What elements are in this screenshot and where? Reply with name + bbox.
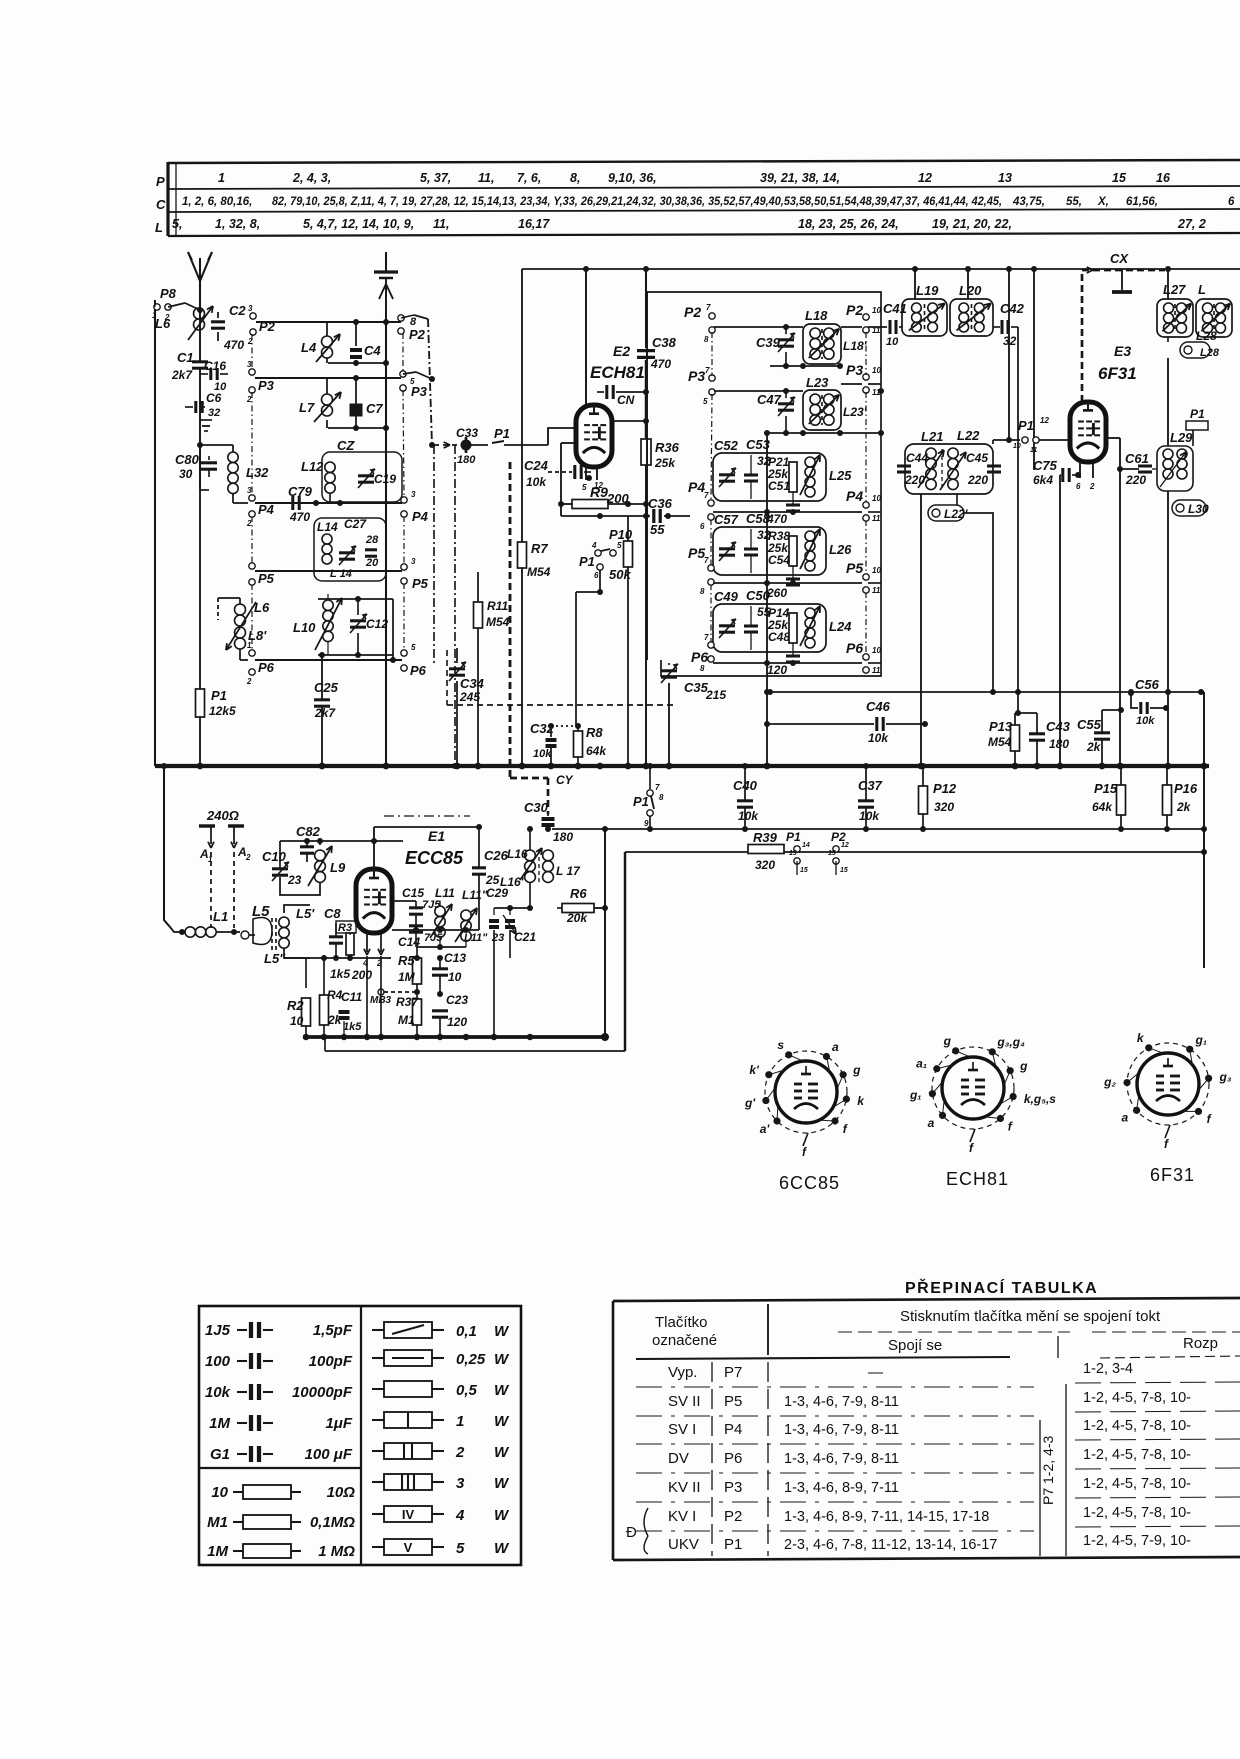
svg-text:g: g xyxy=(943,1034,952,1048)
svg-text:P12: P12 xyxy=(933,781,957,796)
svg-text:3: 3 xyxy=(247,486,252,495)
switch P3 right xyxy=(400,371,406,377)
svg-text:C10: C10 xyxy=(262,849,287,864)
svg-text:P1: P1 xyxy=(494,426,510,441)
legend wattage row 4 xyxy=(372,1513,384,1515)
vertical right edge x1204 xyxy=(1203,692,1205,968)
capacitor C21 xyxy=(505,919,515,923)
svg-text:6F31: 6F31 xyxy=(1098,364,1137,383)
svg-text:5: 5 xyxy=(582,483,587,492)
IF can L25 xyxy=(713,453,826,501)
svg-text:P6: P6 xyxy=(724,1450,742,1467)
svg-text:W: W xyxy=(494,1382,510,1399)
wire C56 rail y692 xyxy=(770,691,1204,693)
svg-text:11: 11 xyxy=(872,514,881,523)
svg-text:P2: P2 xyxy=(684,304,701,320)
ground symbol top xyxy=(385,252,387,272)
svg-text:0,5: 0,5 xyxy=(456,1382,478,1399)
pushbutton chain left column xyxy=(251,334,253,370)
svg-text:11,: 11, xyxy=(433,217,449,231)
svg-text:Rozp: Rozp xyxy=(1183,1335,1218,1352)
svg-text:10: 10 xyxy=(1013,443,1021,450)
svg-text:C4: C4 xyxy=(364,343,381,358)
svg-text:SV II: SV II xyxy=(668,1393,701,1410)
wire y930 row xyxy=(392,929,479,931)
svg-text:10: 10 xyxy=(872,494,881,503)
capacitor C4 xyxy=(350,348,362,352)
IF block frame xyxy=(646,292,881,676)
svg-text:P6: P6 xyxy=(691,649,708,665)
switch P4 IF right xyxy=(863,502,869,508)
switch P6 right xyxy=(401,650,407,656)
svg-text:L: L xyxy=(155,220,163,235)
svg-text:R39: R39 xyxy=(753,830,778,845)
svg-text:P5: P5 xyxy=(724,1393,742,1410)
svg-text:6: 6 xyxy=(700,522,705,531)
heavy dashed CY to C30 xyxy=(510,777,548,780)
svg-text:12: 12 xyxy=(918,171,932,185)
svg-text:5: 5 xyxy=(411,643,416,652)
switch P2 IF right xyxy=(841,326,862,328)
wire L27 to L29 vertical xyxy=(1167,337,1169,342)
svg-text:L11": L11" xyxy=(462,888,488,902)
wire L5 ground xyxy=(255,941,284,958)
capacitor C36 55 xyxy=(652,509,655,523)
svg-text:L32: L32 xyxy=(246,465,269,480)
svg-text:10k: 10k xyxy=(526,475,547,489)
svg-text:8: 8 xyxy=(700,587,705,596)
svg-text:4: 4 xyxy=(455,1507,465,1524)
svg-text:C30: C30 xyxy=(524,800,549,815)
wire tube pins to bus xyxy=(366,956,368,1037)
svg-text:25: 25 xyxy=(485,873,500,887)
svg-text:CX: CX xyxy=(1110,251,1129,266)
svg-text:220: 220 xyxy=(1125,473,1146,487)
component usage table frame xyxy=(168,160,1240,163)
svg-text:W: W xyxy=(494,1475,510,1492)
IF can L24 xyxy=(713,604,826,652)
svg-text:L18': L18' xyxy=(843,339,868,353)
wire L4 C4 bottom xyxy=(328,362,386,364)
svg-text:UKV: UKV xyxy=(668,1536,699,1553)
svg-text:L24: L24 xyxy=(829,619,852,634)
svg-text:10: 10 xyxy=(872,566,881,575)
svg-text:200: 200 xyxy=(351,968,372,982)
svg-text:2k: 2k xyxy=(1086,740,1102,754)
svg-text:64k: 64k xyxy=(586,744,607,758)
svg-text:10: 10 xyxy=(872,306,881,315)
svg-text:C39: C39 xyxy=(756,335,781,350)
socket outer dashed circle 6F31 xyxy=(1127,1043,1209,1125)
resistor P15 64k xyxy=(1117,785,1126,815)
switch P5 left xyxy=(249,563,255,569)
wire L22 block down xyxy=(956,494,958,505)
svg-text:M1: M1 xyxy=(398,1013,415,1027)
wire y829 rail xyxy=(552,828,1204,830)
capacitor C42 32 xyxy=(993,326,1000,328)
svg-text:SV I: SV I xyxy=(668,1421,696,1438)
svg-text:220: 220 xyxy=(904,473,925,487)
svg-text:W: W xyxy=(494,1323,510,1340)
wire x625 down xyxy=(624,852,626,1051)
wire y852 rail xyxy=(625,851,1204,853)
svg-text:7: 7 xyxy=(704,556,709,565)
svg-text:G1: G1 xyxy=(210,1446,230,1463)
svg-text:2k7: 2k7 xyxy=(314,706,336,720)
svg-text:P1: P1 xyxy=(1018,418,1034,433)
wire row P6 IF bottom xyxy=(713,662,862,664)
svg-text:L 14: L 14 xyxy=(330,568,352,580)
svg-text:C25: C25 xyxy=(314,680,339,695)
svg-text:C43: C43 xyxy=(1046,719,1071,734)
svg-text:C54: C54 xyxy=(768,553,790,567)
svg-text:5: 5 xyxy=(456,1540,465,1557)
svg-text:Tlačítko: Tlačítko xyxy=(655,1314,708,1331)
svg-text:P4: P4 xyxy=(688,479,705,495)
svg-text:6F31: 6F31 xyxy=(1150,1165,1195,1185)
svg-text:4: 4 xyxy=(591,541,597,550)
switch P4 left xyxy=(249,495,255,501)
wire ECC85 top long rail xyxy=(374,840,403,842)
svg-text:C58: C58 xyxy=(746,511,771,526)
switch P3 IF right xyxy=(841,383,862,385)
svg-text:61,56,: 61,56, xyxy=(1126,196,1158,208)
svg-text:320: 320 xyxy=(755,858,775,872)
svg-text:R9: R9 xyxy=(590,484,608,500)
svg-text:0,25: 0,25 xyxy=(456,1351,486,1368)
svg-text:ECH81: ECH81 xyxy=(590,363,645,382)
socket electrodes ECH81 xyxy=(961,1079,969,1082)
svg-text:1 MΩ: 1 MΩ xyxy=(318,1543,355,1560)
svg-text:R6: R6 xyxy=(570,886,587,901)
svg-text:5, 37,: 5, 37, xyxy=(420,171,451,185)
svg-text:P1: P1 xyxy=(211,688,227,703)
svg-text:C52: C52 xyxy=(714,438,739,453)
svg-text:3: 3 xyxy=(411,490,416,499)
wire dashdot vertical P2-P3-P4 xyxy=(428,319,432,445)
svg-text:2, 4, 3,: 2, 4, 3, xyxy=(292,171,331,185)
legend wattage row 3 xyxy=(372,1481,384,1483)
svg-text:W: W xyxy=(494,1351,510,1368)
svg-text:P3: P3 xyxy=(724,1479,742,1496)
svg-text:240Ω: 240Ω xyxy=(206,808,239,823)
wire left edge vertical xyxy=(154,300,156,766)
svg-text:P5: P5 xyxy=(688,545,705,561)
svg-text:7: 7 xyxy=(705,366,710,375)
svg-text:ECC85: ECC85 xyxy=(405,848,464,868)
svg-text:0,1: 0,1 xyxy=(456,1323,477,1340)
svg-text:10: 10 xyxy=(886,336,899,348)
socket electrodes 6F31 xyxy=(1156,1075,1164,1078)
svg-text:1-3, 4-6, 8-9, 7-11: 1-3, 4-6, 8-9, 7-11 xyxy=(784,1480,899,1496)
svg-text:P10: P10 xyxy=(609,527,633,542)
svg-text:3: 3 xyxy=(456,1475,465,1492)
svg-text:označené: označené xyxy=(652,1332,717,1349)
svg-text:10k: 10k xyxy=(1136,715,1155,727)
wire row P6 xyxy=(240,659,248,661)
svg-text:10000pF: 10000pF xyxy=(292,1384,353,1401)
svg-text:P5: P5 xyxy=(258,571,275,586)
svg-text:180: 180 xyxy=(553,830,573,844)
svg-text:C24: C24 xyxy=(524,458,549,473)
wire L5 secondary xyxy=(284,905,310,913)
svg-text:2: 2 xyxy=(246,677,252,686)
switch P2 right xyxy=(398,315,404,321)
switch P6 IF right xyxy=(863,654,869,660)
coil L30 xyxy=(1172,500,1206,516)
svg-text:27, 2: 27, 2 xyxy=(1177,217,1206,231)
svg-text:L23': L23' xyxy=(843,405,868,419)
wire antenna to L6 xyxy=(199,310,201,362)
trimmer C12 xyxy=(350,619,366,622)
svg-text:P3: P3 xyxy=(258,378,275,393)
wire ECC85 cathode row xyxy=(310,904,336,906)
heavy dashed CX line xyxy=(1081,270,1084,402)
svg-text:120: 120 xyxy=(447,1015,467,1029)
svg-text:L25: L25 xyxy=(829,468,852,483)
resistor R8 64k xyxy=(574,731,583,757)
wire row P3 IF xyxy=(714,390,803,392)
socket tube circle 6F31 xyxy=(1137,1053,1199,1115)
svg-text:1J5: 1J5 xyxy=(205,1322,231,1339)
capacitor C7 xyxy=(350,404,363,417)
svg-text:3: 3 xyxy=(248,304,253,313)
svg-text:32: 32 xyxy=(208,407,220,419)
capacitor C41 10 xyxy=(888,320,891,334)
svg-text:a: a xyxy=(928,1116,935,1130)
trimmer C39 xyxy=(778,338,794,341)
svg-text:P4: P4 xyxy=(412,509,429,524)
svg-text:220: 220 xyxy=(967,473,988,487)
wire left edge to L1 xyxy=(164,766,170,927)
svg-text:L23: L23 xyxy=(806,375,829,390)
svg-text:Vyp.: Vyp. xyxy=(668,1364,697,1381)
svg-text:L4: L4 xyxy=(301,340,317,355)
wire to ECH81 grid xyxy=(548,428,577,445)
tube pins ECH81 xyxy=(585,467,587,480)
svg-text:M54: M54 xyxy=(527,565,551,579)
svg-text:KV I: KV I xyxy=(668,1508,696,1525)
svg-text:43,75,: 43,75, xyxy=(1012,196,1045,208)
svg-text:1, 2, 6, 80,16,: 1, 2, 6, 80,16, xyxy=(182,196,252,208)
wire L23 bottom xyxy=(764,432,881,434)
svg-text:14: 14 xyxy=(802,842,810,849)
legend wattage row 0,25 xyxy=(372,1357,384,1359)
svg-text:2: 2 xyxy=(246,519,252,528)
wire ECC85 bottom area xyxy=(357,955,359,1037)
resistor R37 M1 xyxy=(413,999,422,1025)
svg-text:L26: L26 xyxy=(829,542,852,557)
resistor R5 1M xyxy=(413,958,422,984)
svg-text:P2: P2 xyxy=(724,1508,742,1525)
ECC85 bottom second line xyxy=(324,1037,326,1051)
svg-text:P: P xyxy=(156,174,165,189)
svg-text:180: 180 xyxy=(457,454,476,466)
svg-text:W: W xyxy=(494,1540,510,1557)
svg-text:P8: P8 xyxy=(160,286,177,301)
svg-text:Spojí se: Spojí se xyxy=(888,1337,942,1354)
svg-text:P1: P1 xyxy=(1190,407,1205,421)
svg-text:23: 23 xyxy=(287,873,302,887)
svg-text:P1: P1 xyxy=(724,1536,742,1553)
svg-text:100: 100 xyxy=(205,1353,231,1370)
dotted wire C32 R8 xyxy=(551,725,578,727)
capacitor C2 470 xyxy=(217,312,219,318)
resistor R7 M54 xyxy=(521,269,523,542)
dashdot vertical x434 xyxy=(433,445,435,666)
IF can L26 xyxy=(713,527,826,575)
svg-text:28: 28 xyxy=(365,534,379,546)
svg-text:180: 180 xyxy=(1049,737,1069,751)
svg-text:g₃,g₄: g₃,g₄ xyxy=(996,1035,1025,1049)
svg-text:30: 30 xyxy=(179,467,193,481)
capacitor C44 220 xyxy=(897,464,911,467)
pushbutton chain right column AM xyxy=(402,333,404,372)
legend wattage row 0,5 xyxy=(372,1388,384,1390)
svg-text:C16: C16 xyxy=(204,359,226,373)
svg-text:P4: P4 xyxy=(846,488,863,504)
svg-text:3: 3 xyxy=(247,360,252,369)
svg-text:M54: M54 xyxy=(988,735,1012,749)
svg-text:P3: P3 xyxy=(688,368,705,384)
coil L32 xyxy=(228,452,238,462)
svg-text:1-3, 4-6, 8-9, 7-11, 14-: 1-3, 4-6, 8-9, 7-11, 14-15, 17-18 xyxy=(784,1509,989,1525)
svg-text:C45: C45 xyxy=(966,451,988,465)
svg-text:M1: M1 xyxy=(207,1514,228,1531)
svg-text:55,: 55, xyxy=(1066,196,1082,208)
svg-text:11,: 11, xyxy=(478,171,494,185)
svg-text:C: C xyxy=(156,197,166,212)
svg-text:7, 6,: 7, 6, xyxy=(517,171,541,185)
svg-text:10k: 10k xyxy=(205,1384,231,1401)
wire L14 row P5 xyxy=(255,570,402,572)
svg-text:P13: P13 xyxy=(989,719,1013,734)
svg-text:L14: L14 xyxy=(317,520,338,534)
svg-text:g₁: g₁ xyxy=(1195,1033,1208,1047)
svg-text:L22: L22 xyxy=(957,428,980,443)
svg-text:1M: 1M xyxy=(398,970,416,984)
svg-text:C48: C48 xyxy=(768,630,790,644)
svg-text:C23: C23 xyxy=(446,993,468,1007)
svg-text:P2: P2 xyxy=(409,327,426,342)
wire ground vertical xyxy=(385,322,387,766)
svg-text:1-2, 4-5, 7-8, 10-: 1-2, 4-5, 7-8, 10- xyxy=(1083,1390,1191,1406)
svg-text:P7: P7 xyxy=(724,1364,742,1381)
coil L9 variable xyxy=(315,850,326,861)
svg-text:C8: C8 xyxy=(324,906,341,921)
svg-text:P6: P6 xyxy=(258,660,275,675)
svg-text:100pF: 100pF xyxy=(309,1353,353,1370)
switch P4 right xyxy=(401,497,407,503)
svg-text:s: s xyxy=(777,1038,784,1052)
svg-text:1-2, 4-5, 7-9, 10-: 1-2, 4-5, 7-9, 10- xyxy=(1083,1533,1191,1549)
pushbutton chain IF right column xyxy=(865,332,867,375)
trimmer C47 xyxy=(778,402,794,405)
svg-text:E3: E3 xyxy=(1114,343,1131,359)
svg-text:12: 12 xyxy=(1040,416,1049,425)
svg-text:C57: C57 xyxy=(714,512,739,527)
trimmer C34 245 xyxy=(449,667,465,670)
svg-text:15: 15 xyxy=(840,867,848,874)
svg-text:15: 15 xyxy=(1112,171,1127,185)
svg-text:g: g xyxy=(1019,1059,1028,1073)
switch P3 left xyxy=(249,369,255,375)
resistor P12 320 xyxy=(919,786,928,814)
svg-text:k': k' xyxy=(749,1063,760,1077)
wire row P2 IF xyxy=(714,326,803,328)
svg-text:L12: L12 xyxy=(301,459,324,474)
svg-text:13: 13 xyxy=(828,850,836,857)
svg-text:P1: P1 xyxy=(786,830,801,844)
svg-text:8,: 8, xyxy=(570,171,580,185)
svg-text:R8: R8 xyxy=(586,725,603,740)
svg-text:L11": L11" xyxy=(464,932,488,944)
svg-text:11: 11 xyxy=(872,586,881,595)
svg-text:L5": L5" xyxy=(264,951,286,966)
tube pins ECC85 xyxy=(366,934,368,952)
svg-text:P5: P5 xyxy=(412,576,429,591)
svg-text:L28: L28 xyxy=(1200,347,1220,359)
switch P5 IF right xyxy=(863,574,869,580)
svg-text:C13: C13 xyxy=(444,951,466,965)
svg-text:R5: R5 xyxy=(398,953,415,968)
capacitor CN xyxy=(597,391,604,393)
resistor R36 25k xyxy=(641,439,651,465)
svg-text:7: 7 xyxy=(655,783,660,792)
legend box frame xyxy=(199,1306,521,1565)
svg-text:6: 6 xyxy=(1228,196,1235,208)
svg-text:C50: C50 xyxy=(746,588,771,603)
svg-text:1-2, 3-4: 1-2, 3-4 xyxy=(1083,1361,1133,1377)
svg-text:215: 215 xyxy=(705,688,726,702)
svg-text:C53: C53 xyxy=(746,437,771,452)
svg-text:1,5pF: 1,5pF xyxy=(313,1322,353,1339)
svg-text:1μF: 1μF xyxy=(325,1415,352,1432)
svg-text:L10: L10 xyxy=(293,620,316,635)
svg-text:7: 7 xyxy=(704,633,709,642)
capacitor C43 180 xyxy=(1015,712,1037,714)
svg-text:55: 55 xyxy=(650,522,665,537)
wire x646 main vertical xyxy=(645,269,647,348)
svg-text:7: 7 xyxy=(706,303,711,312)
capacitor C46 10k xyxy=(767,723,874,725)
svg-text:5: 5 xyxy=(617,541,622,550)
svg-text:C38: C38 xyxy=(652,335,677,350)
svg-text:6k4: 6k4 xyxy=(1033,473,1053,487)
wire 6F31 right side xyxy=(1106,437,1120,439)
svg-text:C46: C46 xyxy=(866,699,891,714)
resistor P16 2k xyxy=(1163,785,1172,815)
antenna input A1 xyxy=(210,826,212,844)
wire row P2 xyxy=(256,321,401,323)
legend wattage row 1 xyxy=(372,1419,384,1421)
svg-text:P1: P1 xyxy=(633,794,649,809)
svg-text:1M: 1M xyxy=(207,1543,228,1560)
legend wattage row 0,1 xyxy=(372,1329,384,1331)
svg-text:M54: M54 xyxy=(486,615,510,629)
svg-text:10k: 10k xyxy=(533,748,552,760)
transformer L27b right xyxy=(1196,299,1232,337)
coil L22 prime xyxy=(928,505,964,521)
svg-text:100 μF: 100 μF xyxy=(305,1446,353,1463)
svg-text:L5': L5' xyxy=(296,906,315,921)
wire row P3 xyxy=(255,377,401,379)
svg-text:C34: C34 xyxy=(460,676,485,691)
svg-text:1-2, 4-5, 7-8, 10-: 1-2, 4-5, 7-8, 10- xyxy=(1083,1447,1191,1463)
svg-text:10: 10 xyxy=(448,970,462,984)
svg-text:P16: P16 xyxy=(1174,781,1198,796)
svg-text:8: 8 xyxy=(700,664,705,673)
